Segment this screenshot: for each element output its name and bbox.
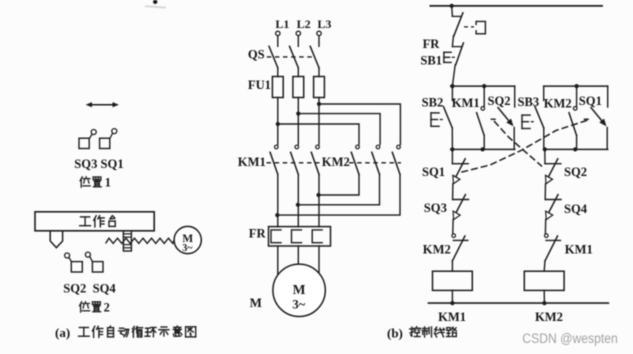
terminal L2 — [296, 31, 300, 35]
svg-text:FU1: FU1 — [248, 78, 271, 92]
disconnect switch QS pole 2 — [290, 36, 299, 68]
svg-text:SB1: SB1 — [420, 54, 442, 68]
limit switch SQ1 NO contact with arrow — [584, 86, 608, 149]
svg-text:(a): (a) — [55, 325, 70, 340]
start button SB2 (NO) — [431, 86, 452, 149]
svg-text:QS: QS — [248, 48, 265, 62]
label KM2 (coil) — [535, 310, 563, 324]
label QS — [248, 48, 265, 62]
contactor KM2 main contact 2 — [372, 145, 380, 174]
spring / screw zigzag to motor — [106, 238, 174, 243]
wire L3 tap to KM2 pole 3 — [319, 104, 400, 144]
label L2 — [297, 17, 311, 31]
label KM1 (interlock) — [565, 243, 593, 257]
label L3 — [317, 17, 331, 31]
label SQ2 (NO contact) — [488, 94, 511, 108]
label M (motor) — [250, 295, 262, 310]
svg-text:SQ4: SQ4 — [564, 202, 588, 216]
label SQ1 (NC contact) — [422, 165, 445, 179]
contactor KM1 auxiliary NO contact — [477, 86, 485, 149]
label 位置1 (position 1) — [80, 176, 111, 190]
caption (a) 工作自动循环示意图 — [55, 325, 196, 340]
thermal relay FR box — [269, 227, 331, 246]
contactor KM2 main contact 1 — [351, 145, 359, 174]
label SQ2 SQ4 — [63, 282, 116, 296]
lead screw block (hatched) — [123, 231, 131, 251]
label 位置2 (position 2) — [80, 301, 110, 315]
label SB2 — [422, 96, 444, 110]
label KM2 (aux contact) — [544, 96, 572, 110]
wire to KM1 coil — [451, 261, 453, 271]
wire KM2 pole1 crossover to phase 3 — [319, 174, 360, 195]
wire KM1 coil to bottom rail — [451, 290, 453, 303]
wire L2 tap to KM2 pole 2 — [298, 114, 380, 145]
svg-text:L2: L2 — [297, 17, 311, 31]
label SQ1 (NO contact) — [579, 94, 602, 108]
terminal L1 — [276, 31, 280, 35]
label KM2 (interlock) — [423, 243, 451, 257]
label KM1 (main contacts) — [238, 155, 266, 169]
label SQ4 — [564, 202, 588, 216]
wire phase L3 to KM1 — [318, 98, 320, 145]
svg-text:3~: 3~ — [292, 297, 305, 311]
coil KM1 — [433, 271, 473, 290]
KM1 mechanical link (dashed) — [267, 162, 320, 164]
mechanical link SQ1 (dashed, crossing) — [462, 120, 590, 173]
svg-text:L3: L3 — [317, 17, 331, 31]
node crossover wire2 — [296, 203, 300, 207]
limit switch SQ1 (position 1) — [100, 129, 117, 149]
FR heater element 3 — [312, 230, 322, 243]
svg-text:FR: FR — [249, 227, 267, 241]
contactor KM1 main contact 2 — [291, 145, 299, 174]
bottom bus left group — [450, 147, 514, 151]
FR NC contact (control) — [452, 6, 463, 36]
stray mark (cropped glyph) top edge — [146, 0, 165, 8]
terminal L3 — [317, 31, 321, 35]
svg-text:SQ1: SQ1 — [422, 165, 445, 179]
contactor KM2 auxiliary NO contact — [569, 86, 577, 149]
limit switch SQ3 NC contact — [453, 195, 469, 220]
coil KM2 — [524, 271, 564, 290]
node A (top bus left group) — [450, 84, 514, 88]
top bus right group — [544, 84, 608, 88]
limit switch SQ1 NC contact — [452, 149, 468, 183]
mechanical link SQ2 (dashed, crossing) — [495, 122, 542, 167]
FR heater element 1 — [271, 230, 281, 243]
disconnect switch QS pole 3 — [310, 36, 319, 68]
wire phase L1 to KM1 — [277, 98, 279, 145]
worktable 工作台 — [35, 212, 154, 231]
stop button SB1 (NC) — [444, 43, 464, 65]
limit switch SQ3 (position 1) — [79, 130, 96, 149]
start button SB3 (NO) — [522, 86, 544, 149]
label FU1 — [248, 78, 271, 92]
node L3 tap — [317, 102, 321, 106]
limit switch SQ2 NC contact — [545, 149, 561, 183]
label SQ3 SQ1 — [74, 157, 123, 171]
KM2 mechanical link (dashed) — [349, 162, 401, 164]
FR heater element 2 — [292, 230, 302, 243]
wire SQ4 to KM1 interlock — [544, 220, 546, 234]
wire SB1 to node A — [452, 65, 455, 86]
label KM2 (main contacts) — [322, 155, 350, 169]
svg-text:KM1: KM1 — [238, 155, 266, 169]
svg-text:SQ2 SQ4: SQ2 SQ4 — [63, 282, 116, 296]
limit switch SQ4 (position 2) — [85, 252, 103, 272]
wire SQ1 to SQ3 — [452, 184, 454, 200]
node rail tap — [450, 4, 454, 8]
svg-text:KM2: KM2 — [535, 310, 563, 324]
watermark CSDN @wespten — [522, 331, 618, 347]
svg-text:SB2: SB2 — [422, 96, 444, 110]
label SB1 — [420, 54, 442, 68]
svg-text:1: 1 — [105, 176, 111, 190]
label KM1 (aux contact) — [452, 96, 480, 110]
motor M 3~ (mechanism) — [174, 226, 201, 254]
contactor KM2 main contact 3 — [392, 145, 400, 174]
svg-text:CSDN @wespten: CSDN @wespten — [522, 331, 618, 347]
label FR (control) — [423, 37, 441, 51]
node crossover wire1 — [275, 213, 279, 217]
wire KM1-1 down to FR — [277, 174, 279, 226]
wire to KM2 coil — [543, 261, 546, 271]
dog / pointer under table — [50, 231, 62, 248]
label L1 — [275, 17, 289, 31]
svg-text:(b): (b) — [387, 325, 403, 340]
svg-text:M: M — [293, 282, 306, 297]
svg-text:3~: 3~ — [182, 243, 193, 254]
limit switch SQ2 NO contact with arrow — [491, 86, 515, 149]
label SQ3 — [424, 201, 447, 215]
svg-text:KM1: KM1 — [452, 96, 480, 110]
svg-text:SQ1: SQ1 — [579, 94, 602, 108]
svg-text:FR: FR — [423, 37, 441, 51]
node L2 tap — [296, 112, 300, 116]
label FR (thermal relay) — [249, 227, 267, 241]
contactor KM1 main contact 3 — [311, 145, 319, 174]
wire SQ3 to KM2 interlock — [452, 220, 454, 234]
wire KM1-3 down to FR — [318, 174, 320, 226]
svg-text:KM1: KM1 — [565, 243, 593, 257]
svg-text:SQ3 SQ1: SQ3 SQ1 — [74, 157, 123, 171]
limit switch SQ2 (position 2) — [65, 253, 83, 272]
motor M 3~ (main circuit) — [273, 264, 325, 316]
svg-text:2: 2 — [104, 301, 110, 315]
svg-text:KM2: KM2 — [544, 96, 572, 110]
wire KM2 coil to bottom rail — [543, 290, 545, 303]
label SB3 — [518, 95, 540, 109]
node L1 tap — [276, 122, 280, 126]
wire FR to motor U — [277, 246, 279, 277]
fuse FU1-1 — [272, 68, 283, 98]
wire SQ2 to SQ4 — [544, 184, 546, 200]
wire FR to SB1 — [452, 36, 453, 47]
fuse FU1-3 — [314, 68, 325, 98]
wire phase L2 to KM1 — [297, 98, 299, 145]
QS mechanical link (dashed) — [267, 56, 316, 58]
svg-text:KM2: KM2 — [322, 155, 350, 169]
svg-text:SQ2: SQ2 — [488, 94, 511, 108]
control return rail (bottom) — [428, 301, 608, 305]
control supply rail (top) — [430, 5, 602, 7]
double-headed motion arrow — [86, 102, 119, 107]
wire KM2 pole2 crossover to phase 2 — [298, 174, 380, 204]
bottom bus right group — [543, 147, 608, 151]
svg-text:L1: L1 — [275, 17, 289, 31]
svg-text:SQ2: SQ2 — [564, 165, 587, 179]
node crossover wire3 — [316, 193, 320, 197]
contactor KM1 NC interlock contact — [545, 234, 561, 261]
fuse FU1-2 — [293, 68, 304, 98]
wire KM2 pole3 crossover to phase 1 — [277, 174, 400, 215]
caption (b) 控制线路 — [387, 325, 456, 340]
svg-text:KM1: KM1 — [438, 310, 466, 324]
FR link dash — [464, 26, 474, 28]
label SQ2 (NC contact) — [564, 165, 587, 179]
svg-text:KM2: KM2 — [423, 243, 451, 257]
contactor KM1 main contact 1 — [270, 145, 278, 174]
svg-text:M: M — [250, 295, 262, 310]
wire L1 tap to KM2 pole 1 — [278, 124, 359, 144]
limit switch SQ4 NC contact — [545, 195, 561, 220]
wire FR to motor W — [318, 246, 320, 274]
FR heater symbol (control) — [476, 21, 485, 33]
contactor KM2 NC interlock contact — [452, 234, 468, 261]
wire FR to motor V — [297, 246, 299, 264]
disconnect switch QS pole 1 — [269, 36, 278, 68]
wire KM1-2 down to FR — [297, 174, 299, 226]
label KM1 (coil) — [438, 310, 466, 324]
svg-text:SQ3: SQ3 — [424, 201, 447, 215]
